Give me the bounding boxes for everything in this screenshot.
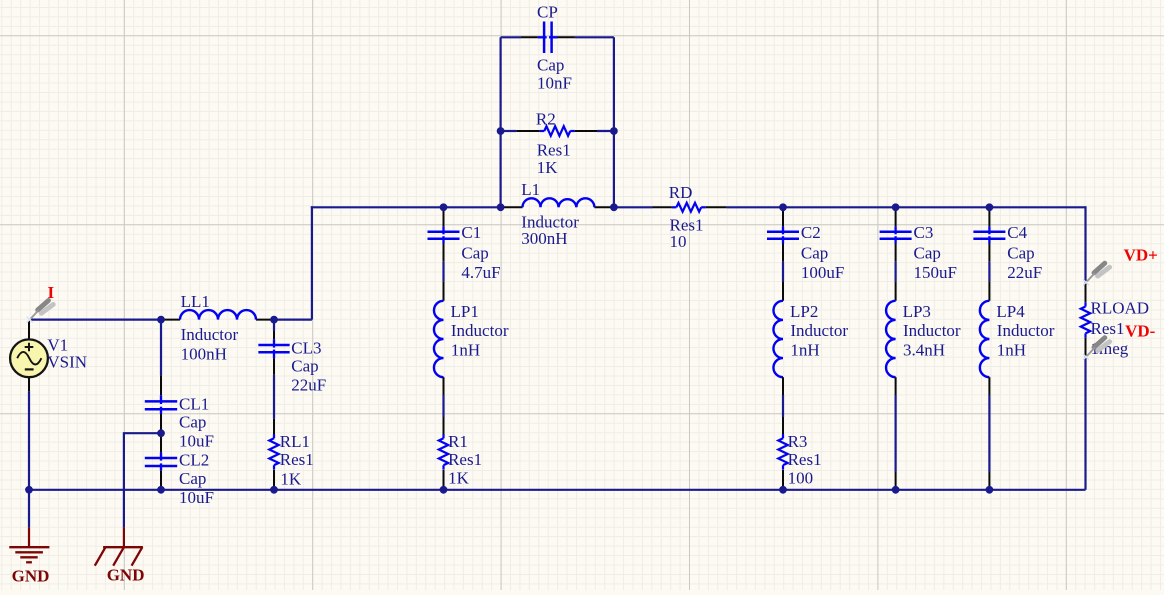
- svg-text:1nH: 1nH: [790, 341, 819, 360]
- capacitor C3 150uF: [880, 209, 957, 282]
- svg-text:Cap: Cap: [179, 413, 206, 432]
- svg-text:22uF: 22uF: [291, 375, 326, 394]
- svg-text:RD: RD: [669, 183, 693, 202]
- svg-text:10nF: 10nF: [537, 74, 572, 93]
- capacitor C1 4.7uF: [428, 209, 501, 282]
- wire: CL3 to RL1 segment: [273, 375, 275, 419]
- svg-text:100uF: 100uF: [801, 263, 844, 282]
- svg-text:L1: L1: [521, 180, 540, 199]
- svg-text:Res1: Res1: [537, 140, 571, 159]
- wire: CP/R2 loop right vertical: [613, 37, 615, 207]
- svg-text:Inductor: Inductor: [451, 321, 509, 340]
- svg-text:Inductor: Inductor: [903, 321, 961, 340]
- svg-text:R2: R2: [536, 110, 556, 129]
- resistor RLOAD Res1 1meg: [1081, 282, 1149, 358]
- wire: chassis-ground stub crossing rail: [124, 433, 161, 527]
- wire: C4 to LP4: [988, 262, 990, 282]
- wire: CP row right stub: [575, 36, 614, 38]
- wire: main bus riser to L1: [311, 206, 501, 208]
- svg-text:22uF: 22uF: [1007, 263, 1042, 282]
- svg-text:C4: C4: [1007, 223, 1027, 242]
- junction CL2 / rail: [157, 486, 165, 494]
- svg-text:300nH: 300nH: [521, 229, 567, 248]
- svg-text:GND: GND: [107, 566, 145, 585]
- wire: input net V1 to LL1 (y=319.6): [29, 319, 161, 321]
- ground GND (earth symbol under V1): [9, 527, 49, 585]
- junction LL1 right / CL3 top: [270, 316, 278, 324]
- wire: C3 to LP3: [894, 262, 896, 282]
- resistor R3 Res1 100: [778, 417, 821, 489]
- svg-text:LP1: LP1: [451, 302, 479, 321]
- inductor LP2 1nH: [773, 281, 848, 395]
- svg-text:Cap: Cap: [914, 244, 941, 263]
- svg-text:RLOAD: RLOAD: [1091, 299, 1150, 318]
- wire: LP3 to rail: [894, 395, 896, 472]
- svg-text:Cap: Cap: [179, 469, 206, 488]
- resistor R1 Res1 1K: [439, 417, 482, 489]
- capacitor CL2 10uF: [145, 451, 214, 508]
- voltage source V1 (VSIN): [10, 321, 87, 392]
- wire: C1 to LP1: [442, 262, 444, 282]
- junction R2 right: [610, 127, 618, 135]
- junction CL1-CL2 / chassis gnd tap: [157, 429, 165, 437]
- svg-text:10: 10: [670, 232, 687, 251]
- svg-text:1K: 1K: [280, 470, 302, 489]
- wire: LP4 to rail: [988, 395, 990, 472]
- svg-text:LP2: LP2: [790, 302, 818, 321]
- resistor RD Res1 10: [653, 183, 727, 251]
- svg-text:LL1: LL1: [181, 292, 210, 311]
- junction C2 / bus: [779, 203, 787, 211]
- svg-text:Cap: Cap: [801, 244, 828, 263]
- probe I (current probe at input): [27, 283, 55, 323]
- svg-text:V1: V1: [47, 335, 68, 354]
- resistor R2 Res1 1K: [516, 110, 597, 178]
- svg-text:Cap: Cap: [461, 244, 488, 263]
- svg-text:GND: GND: [12, 567, 50, 586]
- ground GND (chassis symbol): [95, 527, 145, 584]
- junction C1 / bus: [440, 203, 448, 211]
- svg-text:1nH: 1nH: [451, 341, 480, 360]
- svg-text:Cap: Cap: [1007, 244, 1034, 263]
- junction RL1 / rail: [270, 486, 278, 494]
- svg-text:CL1: CL1: [179, 395, 209, 414]
- junction R3 / rail: [779, 486, 787, 494]
- svg-text:Cap: Cap: [291, 356, 318, 375]
- junction LL1 left / CL1 top: [157, 316, 165, 324]
- svg-text:VD-: VD-: [1125, 322, 1156, 341]
- resistor RL1 Res1 1K: [269, 419, 314, 489]
- svg-text:10uF: 10uF: [179, 488, 214, 507]
- wire: CL1 column top segment: [160, 320, 162, 376]
- wire: main bus L1 to RD: [614, 206, 653, 208]
- svg-text:Inductor: Inductor: [181, 325, 239, 344]
- junction R1 / rail: [440, 486, 448, 494]
- wire: R2 row left stub: [501, 130, 517, 132]
- svg-text:CL2: CL2: [179, 451, 209, 470]
- svg-text:I: I: [48, 283, 55, 302]
- inductor L1 300nH: [501, 180, 614, 248]
- probe VD+: [1083, 245, 1158, 285]
- wire: LL1 to riser: [274, 319, 312, 321]
- svg-text:1nH: 1nH: [997, 341, 1026, 360]
- inductor LP1 1nH: [434, 281, 509, 395]
- wire: R2 row right stub: [597, 130, 614, 132]
- capacitor C4 22uF: [973, 209, 1042, 282]
- junction C3 / bus: [892, 203, 900, 211]
- inductor LL1 100nH: [161, 292, 274, 364]
- svg-text:R1: R1: [448, 432, 468, 451]
- svg-text:Res1: Res1: [448, 450, 482, 469]
- capacitor C2 100uF: [767, 209, 844, 282]
- svg-text:C2: C2: [801, 223, 821, 242]
- svg-text:4.7uF: 4.7uF: [461, 263, 500, 282]
- svg-text:1K: 1K: [448, 468, 470, 487]
- capacitor CL3 22uF: [258, 331, 326, 394]
- probe VD-: [1083, 322, 1156, 360]
- svg-text:LP4: LP4: [996, 302, 1025, 321]
- svg-text:LP3: LP3: [903, 302, 931, 321]
- junction LP3 / rail: [892, 486, 900, 494]
- capacitor CP 10nF: [521, 2, 575, 92]
- wire: V1 branch down to earth ground: [28, 391, 30, 527]
- svg-text:CP: CP: [537, 2, 558, 21]
- svg-text:Res1: Res1: [280, 450, 314, 469]
- junction V1 / rail: [25, 486, 33, 494]
- svg-text:150uF: 150uF: [914, 263, 957, 282]
- svg-text:Inductor: Inductor: [790, 321, 848, 340]
- wire: right vertical below RLOAD to rail: [1084, 357, 1086, 490]
- svg-text:100: 100: [788, 468, 814, 487]
- svg-text:10uF: 10uF: [179, 432, 214, 451]
- svg-text:VD+: VD+: [1124, 245, 1158, 264]
- junction C4 / bus: [986, 203, 994, 211]
- svg-text:CL3: CL3: [291, 339, 321, 358]
- svg-text:Res1: Res1: [788, 450, 822, 469]
- svg-text:Cap: Cap: [537, 55, 564, 74]
- wire: CP/R2 loop left vertical: [500, 37, 502, 207]
- junction LP4 / rail: [986, 486, 994, 494]
- wire: riser up to main bus: [311, 206, 313, 319]
- svg-text:R3: R3: [788, 432, 808, 451]
- wire: C2 to LP2: [782, 262, 784, 282]
- svg-text:C1: C1: [461, 223, 481, 242]
- wire: LP2 to R3: [782, 395, 784, 417]
- inductor LP4 1nH: [980, 281, 1055, 395]
- junction L1 left / loop: [497, 203, 505, 211]
- svg-text:Res1: Res1: [1091, 319, 1125, 338]
- svg-text:Inductor: Inductor: [997, 321, 1055, 340]
- svg-text:C3: C3: [914, 223, 934, 242]
- svg-text:RL1: RL1: [280, 432, 310, 451]
- wire: main bus RD to right edge: [727, 206, 1086, 208]
- wire: right vertical bus corner down to probe VD+: [1084, 206, 1086, 282]
- wire: CP row left stub: [501, 36, 521, 38]
- inductor LP3 3.4nH: [886, 281, 961, 395]
- svg-text:VSIN: VSIN: [47, 353, 87, 372]
- svg-text:1K: 1K: [537, 158, 559, 177]
- svg-text:3.4nH: 3.4nH: [903, 341, 945, 360]
- junction R2 left: [497, 127, 505, 135]
- wire: bottom rail y=489.8: [29, 489, 1086, 491]
- wire: CL3 column top segment: [273, 320, 275, 331]
- junction L1 right / loop: [610, 203, 618, 211]
- svg-text:100nH: 100nH: [181, 345, 227, 364]
- wire: LP1 to R1: [442, 395, 444, 417]
- capacitor CL1 10uF: [145, 375, 214, 452]
